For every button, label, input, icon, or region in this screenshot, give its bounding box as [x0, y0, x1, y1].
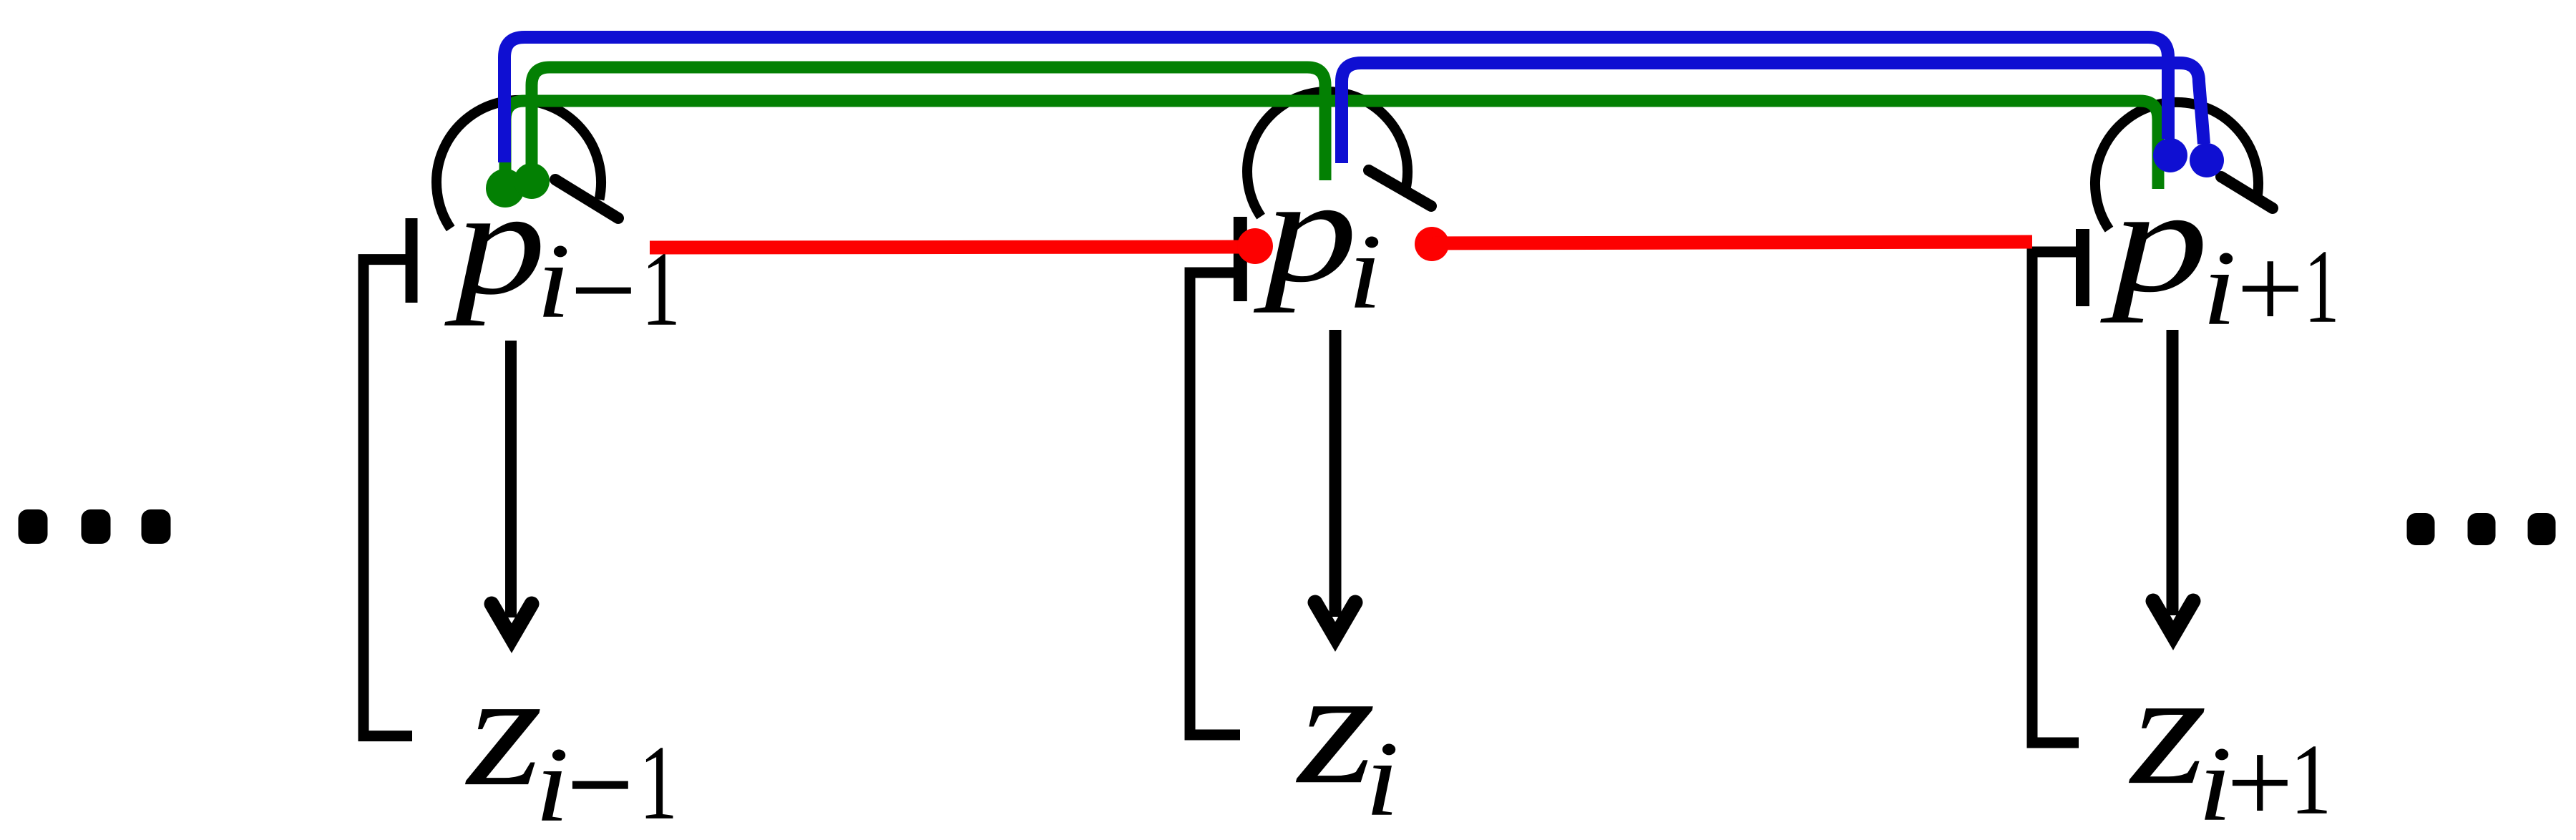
self-loop flat arrowhead (handle) of p(i+1) node [2221, 177, 2273, 208]
svg-text:+: + [2237, 223, 2304, 353]
blue dot head at p(i+1) from p(i-1) [2153, 138, 2187, 172]
svg-text:z: z [2129, 640, 2207, 819]
svg-text:+: + [2227, 716, 2293, 840]
red dot head at p(i) left [1237, 228, 1273, 264]
left ellipsis dots [19, 509, 48, 544]
blue edge: p(i) -> p(i+1), second blue wire [1342, 63, 2204, 163]
tack head bar at p(i+1) [2076, 229, 2089, 306]
self-loop circle of p(i) node [1247, 92, 1407, 217]
blue edge: p(i-1) -> p(i+1), top blue wire [504, 37, 2168, 162]
svg-text:1: 1 [641, 230, 680, 348]
svg-text:1: 1 [639, 724, 678, 840]
bracket wire from z(i) to tack at p(i) [1190, 273, 1240, 735]
arrow p(i+1) -> z(i+1) head [2153, 601, 2193, 635]
svg-text:i: i [2202, 228, 2237, 347]
svg-text:p: p [2099, 158, 2208, 323]
right ellipsis dots [2407, 513, 2435, 545]
svg-text:p: p [1254, 148, 1358, 313]
svg-text:1: 1 [2304, 228, 2339, 346]
arrow p(i) -> z(i) stem [1330, 330, 1342, 617]
arrow p(i) -> z(i) head [1315, 602, 1355, 637]
svg-text:1: 1 [2290, 723, 2332, 835]
bracket wire from z(i-1) to tack at p(i-1) [364, 260, 412, 736]
svg-text:z: z [1296, 635, 1376, 818]
svg-text:−: − [567, 696, 634, 840]
self-loop flat arrowhead (handle) of p(i-1) node [555, 180, 618, 218]
svg-text:z: z [465, 639, 542, 820]
svg-text:i: i [537, 221, 571, 340]
self-loop flat arrowhead (handle) of p(i) node [1369, 170, 1431, 206]
tack head bar at p(i-1) [406, 218, 418, 303]
red dot head at p(i) right [1415, 227, 1449, 261]
svg-text:i: i [1348, 212, 1382, 331]
green edge: p(i+1) -> p(i-1), long lower green wire [505, 101, 2158, 189]
svg-text:i: i [535, 725, 570, 840]
tack head bar at p(i) [1234, 217, 1247, 301]
svg-text:−: − [570, 220, 637, 361]
arrow p(i-1) -> z(i-1) head [492, 604, 532, 638]
red edge: p(i-1) -> p(i) wire [650, 247, 1254, 248]
arrow p(i+1) -> z(i+1) stem [2167, 330, 2179, 615]
blue dot head at p(i+1) from p(i) [2190, 143, 2224, 177]
arrow p(i-1) -> z(i-1) stem [505, 341, 517, 617]
self-loop circle of p(i+1) node [2095, 102, 2258, 230]
self-loop circle of p(i-1) node [436, 100, 601, 228]
red edge: p(i+1) -> p(i) wire [1433, 242, 2032, 243]
svg-text:i: i [1365, 719, 1400, 838]
green edge: p(i) -> p(i-1), upper green wire [532, 67, 1325, 180]
green dot head at p(i-1) from p(i) [514, 163, 550, 199]
bracket wire from z(i+1) to tack at p(i+1) [2032, 252, 2082, 743]
green dot head at p(i-1) from p(i+1) [486, 169, 525, 207]
svg-text:p: p [444, 158, 546, 326]
